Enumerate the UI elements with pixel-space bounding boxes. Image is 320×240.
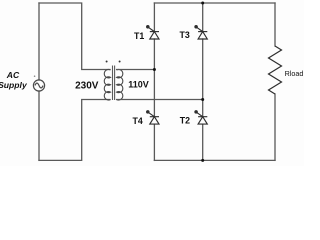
wire T4 column bottom <box>153 124 155 160</box>
wire T1-T4 column middle <box>153 39 155 117</box>
thyristor T1 <box>147 26 159 39</box>
speck near source <box>34 75 36 77</box>
svg-text:T2: T2 <box>180 116 190 126</box>
wire T2 column bottom <box>202 124 204 160</box>
thyristor T2 <box>195 111 207 124</box>
svg-text:Supply: Supply <box>0 80 28 90</box>
polarity dot secondary <box>119 61 121 63</box>
svg-text:T3: T3 <box>179 30 189 40</box>
wire bottom rail <box>154 159 275 161</box>
svg-text:T4: T4 <box>132 116 142 126</box>
svg-text:Rload: Rload <box>285 69 304 78</box>
wire load column bottom <box>274 94 276 160</box>
wire T3 column top <box>202 3 204 32</box>
transformer TR1 secondary winding <box>117 69 123 100</box>
thyristor T4 <box>147 111 159 124</box>
wire top rail <box>154 2 275 4</box>
polarity dot primary <box>106 61 108 63</box>
wire primary top <box>39 3 110 70</box>
thyristor T3 <box>195 26 207 39</box>
AC source V1 <box>33 80 44 91</box>
wire primary left upper <box>38 3 40 80</box>
wire primary bottom <box>39 100 110 161</box>
transformer core <box>113 66 115 101</box>
wire secondary top lead <box>117 69 155 71</box>
svg-text:110V: 110V <box>128 79 149 89</box>
resistor Rload <box>269 46 282 94</box>
wire primary left lower <box>38 91 40 160</box>
wire secondary bottom lead <box>117 99 203 101</box>
wire load column top <box>274 3 276 46</box>
junction node bottom rail / T2 column <box>201 159 204 162</box>
svg-text:AC: AC <box>6 70 20 80</box>
junction node secondary-top / T1 column <box>153 68 156 71</box>
svg-text:T1: T1 <box>134 31 144 41</box>
wire T1 column top <box>153 3 155 32</box>
transformer TR1 primary winding <box>104 69 110 100</box>
junction node top rail / T3 column <box>201 2 204 5</box>
wire T3-T2 column middle <box>202 39 204 117</box>
svg-text:230V: 230V <box>75 81 99 92</box>
junction node secondary-bottom / T3 column <box>201 98 204 101</box>
